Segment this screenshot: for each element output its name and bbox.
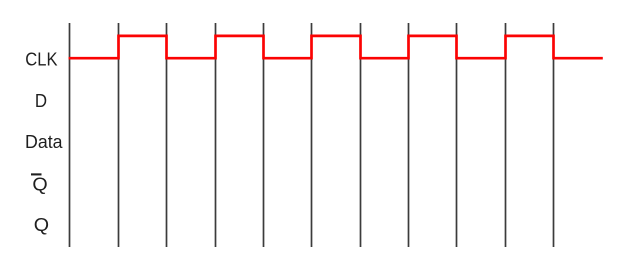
- wire: vertical gridline 9: [456, 23, 458, 247]
- svg-text:CLK: CLK: [25, 49, 58, 70]
- wire: vertical gridline 1: [69, 23, 71, 247]
- wire: vertical gridline 4: [215, 23, 217, 247]
- wire: vertical gridline 8: [408, 23, 410, 247]
- wire: vertical gridline 11: [553, 23, 555, 247]
- svg-text:Q: Q: [34, 214, 49, 235]
- wire: CLK clock waveform (red): [69, 36, 603, 58]
- svg-text:Data: Data: [25, 131, 63, 152]
- wire: vertical gridline 7: [360, 23, 362, 247]
- wire: vertical gridline 2: [118, 23, 120, 247]
- svg-text:D: D: [35, 90, 47, 111]
- wire: vertical gridline 3: [166, 23, 168, 247]
- svg-text:Q: Q: [32, 174, 47, 195]
- wire: vertical gridline 5: [263, 23, 265, 247]
- node Q-bar overline: [31, 173, 42, 175]
- wire: vertical gridline 6: [311, 23, 313, 247]
- wire: vertical gridline 10: [505, 23, 507, 247]
